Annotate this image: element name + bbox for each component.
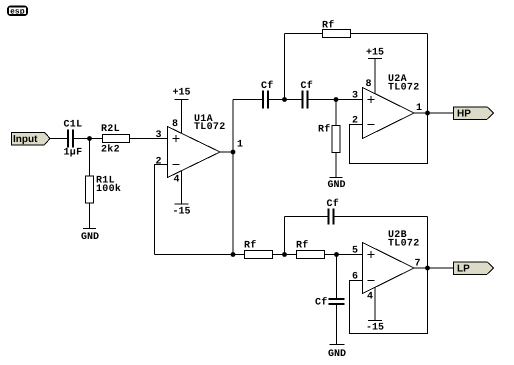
svg-text:Cf: Cf xyxy=(315,297,328,309)
resistor Rf (HP feedback) xyxy=(322,20,351,38)
-15 supply U1A xyxy=(172,171,190,218)
node rail 3 xyxy=(334,252,339,257)
svg-text:GND: GND xyxy=(328,349,346,360)
svg-text:-15: -15 xyxy=(366,323,384,334)
svg-text:3: 3 xyxy=(155,130,161,141)
svg-text:TL072: TL072 xyxy=(388,238,420,249)
bottom rail wire xyxy=(155,254,245,256)
capacitor C1L xyxy=(64,120,83,159)
svg-text:esp: esp xyxy=(10,6,25,15)
wire U2A output xyxy=(414,112,454,114)
wire R1L to ground xyxy=(89,203,91,229)
wire node 1 vertical xyxy=(232,100,234,255)
wire cap2 to U2A pin3 xyxy=(309,99,363,101)
wire Rf2 to U2B pin5 xyxy=(325,254,363,256)
node 1 xyxy=(231,150,236,155)
resistor Rf (LP second) xyxy=(296,240,325,259)
svg-text:Input: Input xyxy=(13,134,38,145)
ground under R1L xyxy=(81,229,99,244)
svg-text:TL072: TL072 xyxy=(194,122,226,133)
LP tag xyxy=(454,262,494,275)
op-amp U1A xyxy=(155,114,225,186)
svg-text:100k: 100k xyxy=(96,183,121,195)
resistor Rf (LP first) xyxy=(244,240,273,259)
capacitor Cf (HP second) xyxy=(301,80,314,109)
svg-text:1: 1 xyxy=(237,140,243,151)
node U2B out xyxy=(425,266,430,271)
wire U1A output to node 1 xyxy=(220,151,233,153)
wire R2L to U1A pin3 xyxy=(130,138,168,140)
node B at U2A pin3 xyxy=(334,97,339,102)
svg-text:5: 5 xyxy=(352,246,358,257)
svg-text:8: 8 xyxy=(172,119,178,130)
svg-text:Rf: Rf xyxy=(322,20,335,32)
svg-text:Rf: Rf xyxy=(318,124,331,136)
wire input tag to C1L xyxy=(50,138,67,140)
svg-text:-15: -15 xyxy=(172,207,190,218)
svg-text:GND: GND xyxy=(327,180,345,191)
svg-text:7: 7 xyxy=(414,259,420,270)
svg-text:2k2: 2k2 xyxy=(101,144,120,156)
svg-text:3: 3 xyxy=(352,91,358,102)
wire HP row from node1 corner to Cf xyxy=(233,99,262,101)
resistor Rf (U2A pin3 to gnd) xyxy=(318,100,340,178)
svg-text:2: 2 xyxy=(155,157,161,168)
svg-text:Cf: Cf xyxy=(327,198,340,210)
svg-text:Cf: Cf xyxy=(261,80,274,92)
svg-text:1µF: 1µF xyxy=(64,148,83,159)
wire between Rf xyxy=(273,254,297,256)
HP tag xyxy=(454,107,494,120)
wire U2B pin6 feedback loop xyxy=(350,268,428,334)
capacitor Cf (HP first) xyxy=(261,80,274,109)
wire junction down to R1L xyxy=(89,139,91,177)
svg-text:GND: GND xyxy=(81,232,99,243)
resistor R1L xyxy=(86,176,122,204)
node rail 2 xyxy=(282,252,287,257)
svg-text:+15: +15 xyxy=(366,48,384,59)
svg-text:1: 1 xyxy=(416,103,422,114)
svg-text:HP: HP xyxy=(457,109,471,120)
ground under Rf xyxy=(327,178,345,192)
node rail 1 xyxy=(231,252,236,257)
svg-text:4: 4 xyxy=(367,292,373,303)
node U2A out xyxy=(425,111,430,116)
wire U1A pin2 feedback loop xyxy=(155,165,168,255)
op-amp U2B xyxy=(352,230,420,302)
wire top feedback up from node A xyxy=(284,34,286,100)
capacitor Cf (LP to gnd) xyxy=(315,255,345,345)
node input junction xyxy=(87,136,92,141)
+15 supply U1A xyxy=(172,88,190,134)
wire U2B output xyxy=(414,267,454,269)
svg-text:TL072: TL072 xyxy=(388,82,420,93)
-15 supply U2B xyxy=(366,288,384,334)
svg-text:+15: +15 xyxy=(172,88,190,99)
svg-text:Rf: Rf xyxy=(244,240,257,252)
svg-text:Cf: Cf xyxy=(301,80,314,92)
+15 supply U2A xyxy=(366,48,384,95)
resistor R2L xyxy=(101,124,130,156)
svg-text:8: 8 xyxy=(365,79,371,90)
svg-text:LP: LP xyxy=(457,264,470,275)
wire C1L to R2L xyxy=(74,138,103,140)
ESP logo xyxy=(8,6,27,15)
svg-text:Rf: Rf xyxy=(296,240,309,252)
wire U2A pin2 feedback loop xyxy=(350,113,428,164)
op-amp U2A xyxy=(352,74,420,138)
wire Rf to right vertical xyxy=(351,33,428,35)
capacitor Cf (U2B feedback) with wires xyxy=(285,198,428,268)
Input tag xyxy=(12,132,51,145)
node A between caps xyxy=(282,97,287,102)
wire between caps xyxy=(269,99,302,101)
svg-text:C1L: C1L xyxy=(64,120,83,131)
svg-text:R2L: R2L xyxy=(101,124,120,135)
ground under Cf xyxy=(328,345,346,361)
svg-text:4: 4 xyxy=(173,175,179,186)
